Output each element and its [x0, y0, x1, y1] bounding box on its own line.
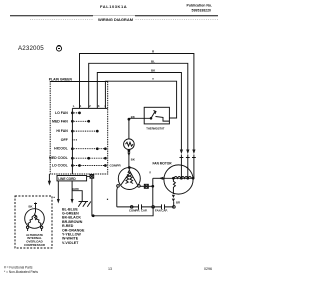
alternate compressor terminals [26, 226, 28, 228]
fan motor winding line [164, 177, 193, 179]
neutral wire from connector to capacitors [92, 178, 153, 216]
fan motor lead arrows (quick disconnects) [180, 150, 183, 155]
wire W4 [105, 81, 176, 118]
svg-text:PLAIN GREEN: PLAIN GREEN [49, 78, 73, 82]
svg-text:LO COOL: LO COOL [52, 164, 69, 168]
svg-text:THERMOSTAT: THERMOSTAT [146, 127, 165, 131]
compressor windings [121, 168, 138, 185]
svg-text:R: R [149, 171, 151, 175]
svg-text:BR: BR [176, 201, 180, 205]
svg-text:GRD: GRD [72, 187, 78, 191]
line cord label box [57, 176, 87, 181]
svg-text:COMPR: COMPR [110, 164, 122, 168]
svg-text:Publication No.: Publication No. [187, 4, 213, 8]
wire W3 [97, 73, 181, 150]
connector (box X) [90, 175, 94, 179]
alternate compressor motor circle [25, 209, 45, 229]
thermostat box [144, 107, 169, 124]
fan capacitor [152, 206, 155, 209]
line cord prong wire 1 [57, 181, 59, 200]
svg-text:BK: BK [29, 205, 33, 209]
svg-text:LINE CORD: LINE CORD [58, 177, 76, 181]
svg-text:MED COOL: MED COOL [49, 156, 69, 160]
alternate compressor windings [35, 212, 37, 220]
wire color legend [62, 207, 85, 245]
compressor capacitor [130, 206, 133, 209]
svg-text:FAN MOTOR: FAN MOTOR [153, 161, 173, 165]
svg-text:OFF: OFF [61, 138, 69, 142]
wire W1 [80, 54, 194, 150]
selector switch S1 outer box [50, 82, 107, 175]
part marker [54, 197, 55, 198]
green ground wire from switch [48, 174, 50, 182]
fan motor circle [164, 165, 193, 194]
svg-text:MED FAN: MED FAN [52, 119, 68, 123]
wire W2 [89, 63, 188, 149]
overload protector [124, 139, 135, 150]
disconnect chevrons, label BR [172, 195, 175, 198]
svg-text:WIRING DIAGRAM: WIRING DIAGRAM [98, 17, 134, 22]
line cord prong wire 2 [71, 181, 73, 200]
junction to fan capacitor [152, 178, 154, 205]
wire [129, 118, 144, 139]
part marker [107, 199, 108, 200]
svg-text:Y: Y [152, 77, 154, 81]
wire compressor R to junction, with connector [140, 185, 153, 187]
svg-text:BK: BK [131, 158, 135, 162]
svg-text:HICOOL: HICOOL [54, 147, 68, 151]
switch contact box [72, 108, 107, 174]
capacitor line [117, 206, 174, 208]
compressor motor circle [118, 168, 140, 190]
fan motor left lead with arrow [153, 177, 164, 179]
svg-text:* = Non-Illustrated Parts: * = Non-Illustrated Parts [4, 270, 38, 274]
header dotted rule [30, 18, 218, 20]
svg-text:BL: BL [151, 59, 155, 63]
chassis ground symbol [72, 191, 82, 202]
svg-text:COMPR. CAP.: COMPR. CAP. [129, 209, 148, 213]
compressor terminals S R [117, 185, 120, 188]
svg-text:0296: 0296 [204, 267, 212, 271]
alternate compressor caption [24, 233, 46, 247]
thermostat internals [144, 111, 169, 122]
wire overload to compressor [128, 150, 130, 152]
fan motor leads into motor [181, 155, 194, 179]
svg-text:V-VIOLET: V-VIOLET [62, 241, 79, 245]
alternate compressor dashed box [15, 196, 52, 248]
header rule [10, 15, 218, 17]
wire compressor S to capacitor line [116, 187, 119, 207]
svg-text:HI FAN: HI FAN [56, 129, 68, 133]
svg-text:FAN CAP.: FAN CAP. [155, 209, 168, 213]
svg-text:A232005: A232005 [18, 45, 44, 52]
svg-text:LO FAN: LO FAN [55, 111, 68, 115]
screw icon [56, 46, 61, 51]
svg-text:FAL103K1A: FAL103K1A [100, 4, 127, 9]
svg-text:L: L [73, 104, 75, 108]
alternate compressor lead [34, 203, 37, 213]
svg-text:COMPRESSOR: COMPRESSOR [24, 243, 46, 247]
svg-text:5995338220: 5995338220 [192, 9, 212, 13]
svg-text:13: 13 [108, 267, 112, 271]
fan motor internal winding down [173, 178, 175, 194]
